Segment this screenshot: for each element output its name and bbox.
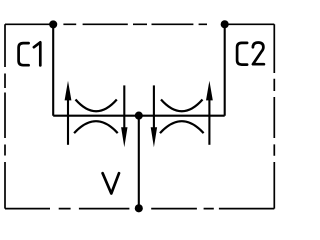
label C1	[19, 43, 29, 65]
orifice arc lower-left	[74, 121, 118, 133]
flow arrow up C1 side (shaft)	[67, 98, 69, 145]
flow arrow up C2 side (head)	[206, 81, 213, 101]
wire manifold bar	[53, 115, 225, 117]
flow arrow down C2 side (head)	[151, 127, 157, 147]
junction dot port V	[135, 204, 143, 212]
label C2	[237, 43, 247, 65]
junction dot port C2	[221, 20, 229, 28]
junction dot port C1	[49, 20, 57, 28]
flow arrow up C2 side (shaft)	[208, 98, 210, 145]
orifice arc upper-left	[76, 100, 117, 112]
flow arrow down C2 side (shaft)	[153, 85, 155, 129]
wire C2 riser	[224, 24, 226, 115]
orifice arc lower-right	[160, 121, 204, 133]
enclosure top edge (dashed)	[5, 23, 274, 25]
wire C1 riser	[52, 24, 54, 115]
flow arrow down C1 side (shaft)	[123, 85, 125, 129]
flow arrow up C1 side (head)	[65, 81, 72, 101]
flow arrow down C1 side (head)	[121, 127, 127, 147]
enclosure bottom edge (dashed)	[5, 208, 274, 210]
wire V drop	[138, 116, 140, 209]
enclosure right edge (dashed)	[273, 24, 275, 208]
enclosure left edge (dashed)	[4, 24, 6, 208]
junction dot center node	[135, 112, 143, 120]
orifice arc upper-right	[161, 100, 203, 112]
label V	[103, 173, 119, 193]
